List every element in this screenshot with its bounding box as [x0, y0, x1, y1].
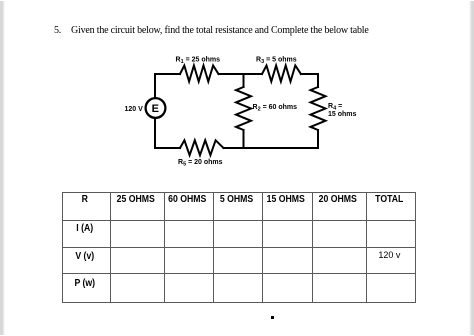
wire left vertical upper (source to top wire) [154, 74, 156, 98]
wire right vertical lower (R4 to bottom corner) [317, 130, 319, 148]
left page edge [0, 1, 5, 335]
bullet dot [271, 316, 274, 319]
svg-text:R1 = 25 ohms: R1 = 25 ohms [176, 57, 221, 66]
svg-text:R5 = 20 ohms: R5 = 20 ohms [178, 159, 223, 168]
wire branch R2 upper [243, 74, 245, 87]
wire R3 to top-right corner [301, 73, 318, 75]
voltage source E [146, 98, 166, 118]
resistor R4 [311, 87, 326, 130]
svg-text:R2 = 60 ohms: R2 = 60 ohms [253, 104, 298, 113]
wire R5 to node B [224, 147, 244, 149]
wire left vertical lower (source to bottom wire) [154, 118, 156, 148]
wire R1 to node A [219, 73, 244, 75]
wire right vertical upper (corner to R4) [317, 74, 319, 87]
wire node B to bottom-right corner [244, 147, 319, 149]
results table [62, 192, 416, 303]
wire bottom-left segment [155, 147, 180, 149]
resistor R1 [180, 66, 219, 82]
svg-text:120 V: 120 V [125, 106, 144, 113]
title [54, 25, 369, 36]
wire branch R2 lower [243, 130, 245, 148]
resistor R3 [262, 66, 301, 82]
wire node A to R3 [244, 73, 263, 75]
right page edge [469, 1, 474, 335]
svg-text:15 ohms: 15 ohms [328, 111, 357, 118]
resistor R2 [236, 87, 251, 130]
svg-text:E: E [152, 103, 159, 115]
resistor R5 [180, 140, 224, 155]
wire top-left: node to R1 [155, 73, 180, 75]
